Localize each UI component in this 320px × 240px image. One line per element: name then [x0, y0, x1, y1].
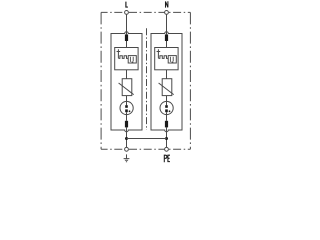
thermal disconnector with indicator N [160, 101, 173, 114]
spark gap F2 box N [155, 48, 178, 70]
wire varistor to disconnector N [166, 96, 168, 102]
channel divider (dash-dot) [146, 28, 148, 130]
label PE [164, 155, 170, 162]
wire contact to spark gap box L [126, 41, 128, 48]
wire L top [126, 14, 128, 34]
spark gap symbol: surge arrow L [117, 49, 121, 58]
device boundary bottom (dash-dot) [101, 148, 190, 150]
PE bus wire between channels [127, 138, 167, 140]
plug contact top N [165, 34, 168, 41]
spark gap symbol: electrodes in trigger box N [170, 57, 173, 62]
spark gap symbol: electrodes in trigger box L [130, 57, 133, 62]
plug contact bottom L [125, 121, 128, 128]
wire varistor to disconnector L [126, 96, 128, 102]
wire disconnector to bottom contact L [126, 115, 128, 121]
device boundary left (dash-dot) [100, 12, 102, 149]
wire contact to spark gap box N [166, 41, 168, 48]
wire spark gap to varistor L [126, 70, 128, 79]
spark gap symbol: wave-breaker battlement N [158, 56, 168, 59]
terminal L entry circle [125, 11, 129, 15]
protection module boundary bracket N (with wire hops) [151, 32, 182, 132]
wire disconnector to bottom contact N [166, 115, 168, 121]
earth symbol [124, 154, 130, 161]
varistor R1 L [122, 79, 132, 96]
varistor R2 N [162, 79, 172, 96]
junction node L [125, 137, 128, 140]
earth exit circle [125, 147, 129, 151]
plug contact top L [125, 34, 128, 41]
wire bottom contact to PE node N [166, 127, 168, 147]
device boundary right (dash-dot) [189, 12, 191, 149]
PE exit circle [165, 147, 169, 151]
spark gap symbol: trigger box N [168, 56, 176, 63]
terminal N entry circle [165, 11, 169, 15]
wire bottom contact to PE node L [126, 127, 128, 147]
plug contact bottom N [165, 121, 168, 128]
spark gap symbol: trigger box L [128, 56, 136, 63]
device boundary top (dash-dot) [101, 11, 190, 13]
junction node N [165, 137, 168, 140]
thermal disconnector with indicator L [120, 101, 133, 114]
spark gap symbol: surge arrow N [157, 49, 161, 58]
spark gap symbol: wave-breaker battlement L [118, 56, 128, 59]
label L [126, 2, 128, 8]
protection module boundary bracket L (with wire hops) [111, 32, 142, 132]
label N [166, 1, 168, 7]
wire N top [166, 14, 168, 34]
wire spark gap to varistor N [166, 70, 168, 79]
spark gap F1 box L [115, 48, 138, 70]
